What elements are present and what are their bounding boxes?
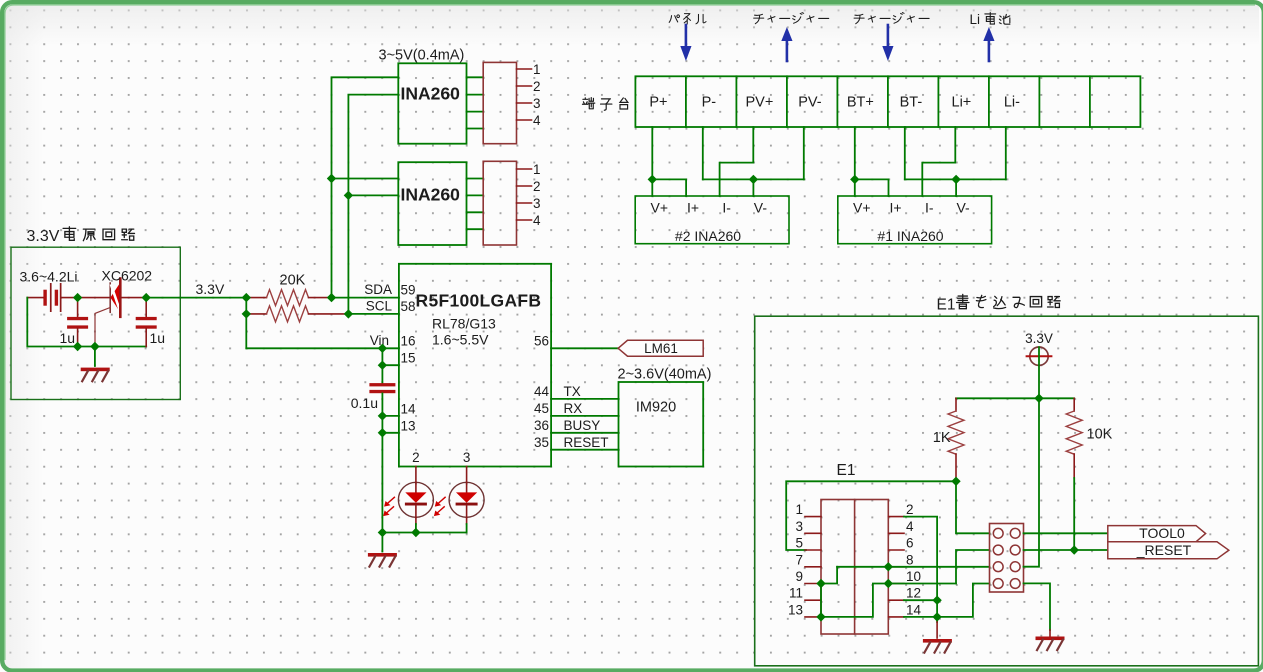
CN2 circle L4 xyxy=(993,579,1003,589)
wire E1 pin9-pin8 link xyxy=(821,567,837,584)
wire pin14 stub to column xyxy=(904,616,937,618)
CN1 pin 7 stub xyxy=(805,566,821,568)
svg-text:3: 3 xyxy=(533,96,541,111)
svg-text:8: 8 xyxy=(906,552,914,567)
wire P+ to I+ xyxy=(652,179,686,196)
svg-text:13: 13 xyxy=(788,602,803,617)
battery BT1 3.6-4.2Li xyxy=(27,283,77,312)
capacitor C1 1u xyxy=(67,298,88,347)
svg-text:SCL: SCL xyxy=(366,299,393,314)
svg-text:59: 59 xyxy=(401,283,416,298)
ground GND LEDs xyxy=(381,533,383,552)
svg-text:3~5V(0.4mA): 3~5V(0.4mA) xyxy=(379,48,465,64)
CN1 pin 5 stub xyxy=(805,549,821,551)
sense block #2 INA260 xyxy=(635,196,789,244)
wire SDA branch to INA260 #2 xyxy=(332,178,399,180)
wire SDA to MCU xyxy=(332,297,399,299)
node SCL branch xyxy=(344,191,353,200)
pin 56 wire to LM61 xyxy=(551,347,618,349)
node V- #2 xyxy=(749,175,758,184)
wire pin14 to header row4 xyxy=(937,584,989,617)
wire PV- drop xyxy=(803,127,805,179)
CN1 pin 11 stub xyxy=(805,599,821,601)
CN2 circle R4 xyxy=(1010,579,1020,589)
CN4 pin 4 xyxy=(517,219,532,221)
TB1 divider 3 xyxy=(786,76,788,127)
svg-text:1.6~5.5V: 1.6~5.5V xyxy=(432,332,489,348)
CN1 pin 4 stub xyxy=(888,532,904,534)
pin 2 stub xyxy=(415,467,417,483)
CN2 circle R3 xyxy=(1010,562,1020,572)
label tanshidai xyxy=(582,98,627,111)
wire BT+ to I+ xyxy=(855,179,889,196)
CN1 pin 10 stub xyxy=(888,583,904,585)
net flag _RESET xyxy=(1108,542,1229,559)
svg-text:Li: Li xyxy=(970,12,981,27)
svg-text:PV+: PV+ xyxy=(745,95,773,111)
wire LED bottom rail xyxy=(382,532,466,534)
wires U4 to connector CN4 xyxy=(467,178,484,180)
svg-text:R5F100LGAFB: R5F100LGAFB xyxy=(416,291,542,311)
wire Vin rail xyxy=(246,347,399,349)
ground GND power circuit xyxy=(94,347,96,367)
wire pin2 to ground column xyxy=(904,517,937,622)
wire LED1 cathode xyxy=(415,517,417,524)
svg-text:3: 3 xyxy=(795,519,803,534)
svg-text:2: 2 xyxy=(906,502,914,517)
TB1 divider 7 xyxy=(988,76,990,127)
svg-text:14: 14 xyxy=(401,402,417,417)
wire BUSY xyxy=(551,432,618,434)
CN1 pin 8 stub xyxy=(888,566,904,568)
svg-text:XC6202: XC6202 xyxy=(102,268,153,284)
svg-text:1: 1 xyxy=(795,502,803,517)
wire pin13 stub xyxy=(382,432,399,434)
wire Li- drop xyxy=(1005,127,1007,179)
CN1 pin 1 stub xyxy=(805,516,821,518)
svg-text:4: 4 xyxy=(533,113,541,128)
resistor R4 10K xyxy=(1073,398,1075,411)
wire SDA riser to INA260s xyxy=(332,77,399,297)
annotation box 3.3V power supply xyxy=(11,247,180,399)
CN1 pin 14 stub xyxy=(888,616,904,618)
wire RESET xyxy=(551,449,618,451)
svg-text:7: 7 xyxy=(795,552,803,567)
node BT+ xyxy=(850,175,859,184)
node pin8 xyxy=(884,562,893,571)
wire header row2 jog to pin10 net xyxy=(956,550,990,584)
node bottom rail C1 xyxy=(73,342,82,351)
svg-text:5: 5 xyxy=(795,536,803,551)
wire SCL to MCU xyxy=(348,313,399,315)
svg-text:V+: V+ xyxy=(651,200,669,216)
CN4 pin 3 xyxy=(517,202,532,204)
svg-text:56: 56 xyxy=(534,334,549,349)
node R1 right / SDA xyxy=(327,293,336,302)
wire P+ drop xyxy=(651,127,653,196)
wire battery negative loop xyxy=(27,298,146,347)
svg-text:INA260: INA260 xyxy=(401,84,461,104)
CN2 circle R2 xyxy=(1010,545,1020,555)
svg-text:E1: E1 xyxy=(837,462,856,479)
label panel xyxy=(669,14,706,24)
CN2 circle R1 xyxy=(1010,528,1020,538)
wire pin15 stub xyxy=(382,364,399,366)
svg-text:Li-: Li- xyxy=(1004,95,1020,111)
wire Li+ drop with jog xyxy=(922,127,955,196)
svg-text:15: 15 xyxy=(401,351,416,366)
net flag TOOL0 xyxy=(1108,526,1206,542)
CN4 pin 2 xyxy=(517,185,532,187)
wire PV+ drop with jog xyxy=(720,127,754,196)
wire TX xyxy=(551,398,618,400)
IC U4 INA260 (lower) xyxy=(398,162,466,245)
wire row4 to ground xyxy=(1024,583,1051,630)
node regulator out xyxy=(142,293,151,302)
power symbol lead xyxy=(1038,347,1040,398)
wire RX xyxy=(551,415,618,417)
svg-text:#2 INA260: #2 INA260 xyxy=(675,228,741,244)
wire pullup left column xyxy=(245,298,247,349)
node Vin xyxy=(378,344,387,353)
svg-text:3.6~4.2Li: 3.6~4.2Li xyxy=(20,269,78,285)
node rail left xyxy=(378,528,387,537)
wire 3.3V rail xyxy=(146,297,246,299)
svg-text:BT+: BT+ xyxy=(847,95,874,111)
node rail LED1 xyxy=(411,528,420,537)
wire P- drop xyxy=(702,127,704,179)
wire pin12 stub to column xyxy=(904,599,937,601)
wire pin10 net toward header xyxy=(888,583,956,585)
resistor R2 20K (SCL) xyxy=(246,306,348,322)
CN4 pin 1 xyxy=(517,168,532,170)
svg-text:PV-: PV- xyxy=(798,95,822,111)
wire Vin column xyxy=(381,348,383,383)
svg-text:0.1u: 0.1u xyxy=(351,395,378,411)
node R4 bottom / _RESET xyxy=(1070,545,1079,554)
svg-text:4: 4 xyxy=(906,519,914,534)
capacitor C3 0.1u xyxy=(369,383,395,393)
svg-text:20K: 20K xyxy=(280,273,306,289)
CN3 pin 4 xyxy=(517,119,532,121)
svg-text:10: 10 xyxy=(906,569,921,584)
svg-text:P-: P- xyxy=(702,95,717,111)
IC U3 INA260 (upper) xyxy=(398,63,466,143)
svg-text:IM920: IM920 xyxy=(636,400,676,416)
wire BT- / V- / Li- bus xyxy=(905,178,1006,180)
node R3 bottom xyxy=(951,477,960,486)
svg-text:45: 45 xyxy=(534,401,549,416)
svg-text:2: 2 xyxy=(533,179,541,194)
node pin14 xyxy=(932,612,941,621)
arrow Li battery (up) xyxy=(983,27,994,61)
svg-text:P+: P+ xyxy=(649,95,667,111)
LED D1 xyxy=(383,482,433,517)
svg-text:11: 11 xyxy=(789,586,803,601)
svg-text:TOOL0: TOOL0 xyxy=(1139,525,1185,541)
node pin12 xyxy=(932,596,941,605)
svg-text:RL78/G13: RL78/G13 xyxy=(432,316,496,332)
CN1 pin 2 stub xyxy=(888,516,904,518)
wire row2 to _RESET xyxy=(1024,549,1108,551)
svg-text:INA260: INA260 xyxy=(401,185,461,205)
svg-text:3: 3 xyxy=(463,450,471,465)
svg-text:35: 35 xyxy=(534,435,549,450)
LED D2 xyxy=(434,482,484,517)
node pin10 xyxy=(884,579,893,588)
ground GND E1 right xyxy=(1049,630,1051,636)
node bottom rail gnd xyxy=(90,342,99,351)
svg-text:V-: V- xyxy=(956,200,970,216)
wire below C3 xyxy=(381,393,383,532)
svg-text:1: 1 xyxy=(533,62,541,77)
svg-text:V-: V- xyxy=(754,200,768,216)
svg-text:BUSY: BUSY xyxy=(564,418,601,433)
resistor R3 1K xyxy=(955,398,957,411)
svg-text:10K: 10K xyxy=(1087,427,1113,443)
wire R3 to E1 pin5 xyxy=(786,481,956,550)
regulator U2 XC6202 xyxy=(78,279,147,347)
node pin14 xyxy=(378,411,387,420)
wire 3.3V rail E1 xyxy=(956,397,1074,399)
capacitor C2 1u xyxy=(136,298,157,347)
arrow panel (down) xyxy=(680,25,691,61)
wires U3 to connector CN3 xyxy=(467,76,484,78)
label E1 kakikomi kairo xyxy=(937,294,1061,313)
CN3 pin 3 xyxy=(517,102,532,104)
wire SCL riser to INA260s xyxy=(348,95,398,314)
wire pin14 stub xyxy=(382,415,399,417)
svg-text:16: 16 xyxy=(401,334,416,349)
svg-text:I-: I- xyxy=(925,200,934,216)
node P+ xyxy=(648,175,657,184)
svg-text:9: 9 xyxy=(795,569,803,584)
svg-text:1u: 1u xyxy=(60,330,76,346)
svg-text:I-: I- xyxy=(722,200,731,216)
TB1 divider 1 xyxy=(685,76,687,127)
svg-text:LM61: LM61 xyxy=(644,341,678,356)
CN2 circle L1 xyxy=(993,528,1003,538)
svg-text:44: 44 xyxy=(534,384,550,399)
svg-text:_RESET: _RESET xyxy=(1136,542,1192,558)
pin 3 stub xyxy=(466,467,468,483)
connector CN3 xyxy=(483,62,516,143)
wire LED2 cathode xyxy=(466,517,468,524)
svg-text:6: 6 xyxy=(906,536,914,551)
svg-text:3.3V: 3.3V xyxy=(27,228,60,245)
svg-text:2~3.6V(40mA): 2~3.6V(40mA) xyxy=(618,367,712,383)
svg-text:TX: TX xyxy=(564,384,581,399)
TB1 divider 6 xyxy=(937,76,939,127)
svg-text:4: 4 xyxy=(533,213,541,228)
CN1 pin 13 stub xyxy=(805,616,821,618)
svg-text:13: 13 xyxy=(401,419,416,434)
svg-text:Li+: Li+ xyxy=(952,95,972,111)
node R2 left xyxy=(242,309,251,318)
svg-text:1K: 1K xyxy=(933,430,951,446)
TB1 divider 8 xyxy=(1038,76,1040,127)
node V- #1 xyxy=(951,175,960,184)
svg-text:I+: I+ xyxy=(687,200,699,216)
terminal block TB1 xyxy=(635,76,1140,127)
svg-text:3.3V: 3.3V xyxy=(1025,331,1053,346)
wire V- #1 pin stub xyxy=(955,179,957,196)
TB1 divider 9 xyxy=(1089,76,1091,127)
svg-text:12: 12 xyxy=(906,586,921,601)
wire pin9-pin13 link xyxy=(820,584,822,617)
resistor R1 20K (SDA) xyxy=(246,290,331,306)
svg-text:SDA: SDA xyxy=(364,282,392,297)
wire pin13-pin10 link xyxy=(821,584,888,617)
svg-text:1: 1 xyxy=(533,162,541,177)
module U5 IM920 xyxy=(619,382,704,467)
TB1 divider 4 xyxy=(836,76,838,127)
svg-text:36: 36 xyxy=(534,418,549,433)
wire row1 to TOOL0 xyxy=(1024,532,1108,534)
label 3.3V dengen kairo xyxy=(27,227,135,245)
arrow charger 2 (down) xyxy=(882,25,893,61)
CN3 pin 2 xyxy=(517,85,532,87)
node pin9 xyxy=(816,579,825,588)
svg-text:E1: E1 xyxy=(937,297,956,314)
wire P- / V- / PV- bus xyxy=(703,178,804,180)
node 3.3V rail xyxy=(1034,394,1043,403)
IC U1 R5F100LGAFB xyxy=(399,264,551,467)
node pin13 xyxy=(816,612,825,621)
connector CN1 E1 14pin xyxy=(821,500,888,635)
wire row3 to 3.3V xyxy=(1024,398,1040,566)
svg-text:2: 2 xyxy=(412,450,420,465)
node R1 left xyxy=(242,293,251,302)
CN2 circle L3 xyxy=(993,562,1003,572)
arrow charger 1 (up) xyxy=(781,27,792,61)
svg-text:14: 14 xyxy=(906,602,922,617)
CN1 pin 3 stub xyxy=(805,532,821,534)
CN1 pin 6 stub xyxy=(888,549,904,551)
CN2 circle L2 xyxy=(993,545,1003,555)
CN1 pin 12 stub xyxy=(888,599,904,601)
node R2 right / SCL xyxy=(344,309,353,318)
TB1 divider 5 xyxy=(887,76,889,127)
node battery + xyxy=(73,293,82,302)
svg-text:3: 3 xyxy=(533,196,541,211)
wire BT- drop xyxy=(904,127,906,179)
header CN2 2x4 xyxy=(990,524,1024,593)
svg-text:I+: I+ xyxy=(889,200,901,216)
node SDA branch xyxy=(327,174,336,183)
wire SCL branch to INA260 #2 xyxy=(348,194,398,196)
sense block #1 INA260 xyxy=(838,196,992,244)
node pin13 xyxy=(378,428,387,437)
svg-text:RESET: RESET xyxy=(564,435,609,450)
connector CN4 xyxy=(483,161,516,245)
wire R3 to header row1 xyxy=(956,481,990,533)
wire pin8 net to header row3 xyxy=(837,566,989,568)
svg-text:3.3V: 3.3V xyxy=(196,281,225,297)
node pin15 xyxy=(378,361,387,370)
label charger 2 xyxy=(854,13,929,24)
svg-text:RX: RX xyxy=(564,401,583,416)
svg-text:2: 2 xyxy=(533,79,541,94)
svg-text:BT-: BT- xyxy=(900,95,923,111)
TB1 divider 2 xyxy=(735,76,737,127)
power symbol 3.3V xyxy=(1027,347,1052,365)
svg-text:#1 INA260: #1 INA260 xyxy=(877,228,943,244)
CN1 pin 9 stub xyxy=(805,583,821,585)
label charger 1 xyxy=(754,13,829,24)
svg-text:V+: V+ xyxy=(853,200,871,216)
svg-text:Vin: Vin xyxy=(370,333,389,348)
net flag LM61 xyxy=(618,340,703,356)
CN3 pin 1 xyxy=(517,68,532,70)
wire BT+ drop xyxy=(854,127,856,196)
svg-text:58: 58 xyxy=(401,299,416,314)
svg-text:1u: 1u xyxy=(150,330,166,346)
wire V- pin stub xyxy=(752,179,754,196)
label Li battery xyxy=(970,12,1010,27)
ground GND E1 left xyxy=(936,622,938,638)
annotation box E1 writer xyxy=(755,316,1259,666)
